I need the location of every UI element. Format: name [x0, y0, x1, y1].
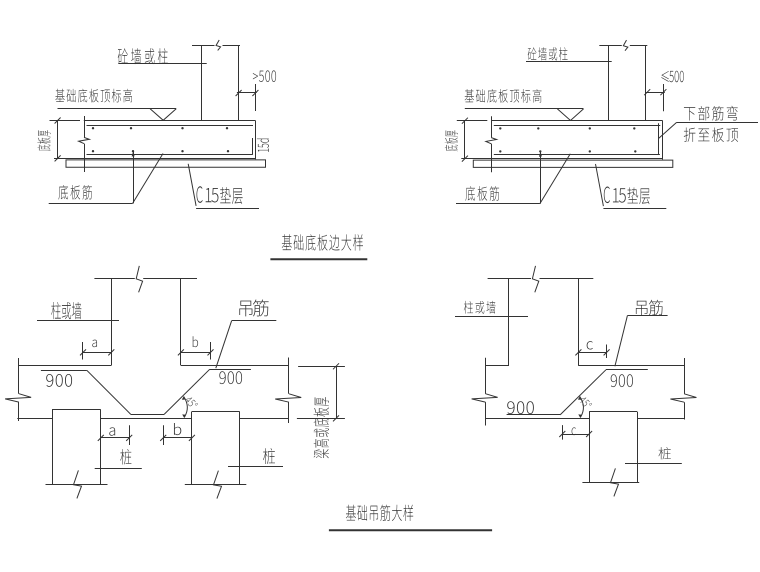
45 degree arc annotation (BR) — [580, 397, 584, 417]
dim c bottom: dimension line (BR) — [562, 434, 589, 436]
dim a top: dimension line (BL) — [83, 352, 111, 354]
left pile outline (BL) — [52, 410, 54, 485]
slab thickness text (rotated) (TR) — [445, 130, 458, 151]
column top edge line with break (BL) — [94, 278, 134, 280]
column right edge (BL) — [180, 279, 182, 366]
break symbol column top (BL) — [136, 266, 142, 292]
label concrete wall or column (TR) — [528, 47, 568, 60]
beam top line left of column (BL) — [19, 365, 111, 367]
hanging rebar right 45-degree diagonal (BL) — [164, 369, 210, 414]
label bottom rebar bent to slab top - line2 (TR) — [684, 127, 738, 142]
bottom rebar distribution dots (TL) — [92, 150, 94, 152]
beam top line right of column (BL) — [181, 365, 289, 367]
bottom rebar 15d hook (TL) — [252, 138, 254, 155]
45 degree text (BR) — [578, 395, 592, 409]
dim >500 extension line (TL) — [255, 84, 257, 111]
45 degree text (BL) — [184, 395, 198, 409]
beam left break edge (BL) — [18, 358, 20, 394]
slab left edge with break (TR) — [491, 116, 493, 137]
title: foundation slab edge detail — [282, 234, 363, 250]
rebar leader diagonal (TR) — [540, 154, 570, 204]
dim a bottom extension (BL) — [129, 425, 131, 445]
leader for bent rebar label (TR) — [677, 122, 758, 124]
wall top edge line with break (TL) — [192, 45, 215, 47]
hanging rebar 900 top segment left (BL) — [41, 370, 87, 372]
top rebar distribution dots (TR) — [499, 127, 501, 129]
slab thickness dimension line (TL) — [57, 121, 59, 159]
beam height or slab thickness text rotated (BL) — [314, 397, 330, 458]
label column or wall (BR) — [464, 301, 496, 314]
bottom rebar line (TL) — [87, 154, 253, 156]
bottom slab rebar label (TL) — [58, 185, 91, 200]
elevation symbol triangle (TR) — [557, 109, 583, 121]
text 900 lower (BR) — [507, 401, 534, 414]
rebar leader diagonal (TL) — [133, 154, 163, 204]
15d hook length text rotated (TL) — [257, 139, 269, 152]
hanging rebar 900 top segment right (BL) — [210, 369, 251, 371]
column top edge line with break (BR) — [488, 278, 531, 280]
C15 cushion layer rectangle (TL) — [66, 160, 266, 167]
hanging rebar bottom segment (BL) — [131, 414, 164, 416]
wall/column right edge (TL) — [238, 46, 240, 121]
leader line for wall label (TR) — [526, 61, 612, 63]
right pile outline (BL) — [191, 412, 193, 485]
leader line elevation (TL) — [58, 108, 177, 110]
right pile bottom line with break (BL) — [185, 484, 247, 486]
slab left edge with break (TL) — [84, 116, 86, 137]
label hanging rebar (BR) — [636, 300, 663, 316]
dim a top text (BL) — [92, 340, 97, 348]
dim c bottom text (BR) — [572, 427, 576, 435]
text 900 left (BL) — [46, 374, 72, 387]
C15 cushion layer rectangle (TR) — [473, 160, 673, 167]
title: foundation hanging rebar detail — [346, 505, 413, 521]
dim >500 dimension line (TL) — [237, 92, 257, 94]
beam bottom line right (BR) — [637, 418, 684, 420]
dim b top: dimension line (BL) — [181, 352, 211, 354]
bottom slab rebar label (TR) — [465, 186, 499, 201]
dim b top: extension line (BL) — [210, 342, 212, 360]
column right edge (BR) — [578, 279, 580, 366]
wall top edge line with break (TR) — [599, 45, 622, 47]
pile bottom line with break (BR) — [582, 482, 639, 484]
C15 cushion label text (TR) — [604, 186, 610, 203]
slab thickness text (rotated) (TL) — [37, 130, 50, 151]
break symbol on wall top (TL) — [216, 40, 221, 51]
dim b top text (BL) — [193, 336, 198, 347]
break symbol on slab left edge (TL) — [79, 137, 90, 143]
wall/column right edge (TR) — [645, 46, 647, 121]
column left edge (BR) — [508, 279, 510, 366]
leader hanging rebar (BR) — [627, 315, 667, 317]
slab bottom line + dim extension (TR) — [461, 158, 662, 160]
dim b bottom: extension (BL) — [163, 425, 165, 445]
bottom rebar distribution dots (TR) — [499, 150, 501, 152]
wall/column left edge (TL) — [201, 46, 203, 121]
title underline thick — [270, 258, 367, 260]
C15 cushion label leader (TR) — [596, 164, 604, 206]
title 2 underline thick — [329, 529, 492, 531]
leader for column label (BL) — [37, 320, 119, 322]
dim c top text (BR) — [587, 341, 593, 349]
dim b bottom: dimension line (BL) — [163, 437, 192, 439]
dim text >500 (TL) — [253, 70, 276, 82]
bottom rebar full-height hook (TR) — [658, 123, 660, 155]
break symbol on slab left edge (TR) — [486, 138, 497, 144]
dim c top: dimension line (BR) — [578, 352, 606, 354]
label bottom rebar bent to slab top - line1 (TR) — [684, 106, 738, 121]
left break edge (BR) — [485, 358, 487, 394]
dim <=500 extension line (TR) — [663, 84, 665, 111]
slab thickness dimension line (TR) — [464, 121, 466, 159]
slab top line (TR) — [491, 120, 663, 122]
slab thickness dim top extension line (TL) — [50, 120, 81, 122]
wall/column left edge (TR) — [608, 46, 610, 121]
pile label (BR) — [658, 447, 670, 459]
column left edge (BL) — [111, 279, 113, 366]
slab top line (TL) — [84, 120, 256, 122]
label hanging rebar (BL) — [239, 300, 268, 317]
top rebar line (TL) — [87, 125, 254, 127]
beam bottom line left (BR) — [485, 418, 589, 420]
beam top line right portion (BR) — [578, 365, 684, 367]
ledge step left of column (BR) — [485, 365, 509, 367]
slab right edge (TR) — [662, 121, 664, 160]
C15 cushion label text (TL) — [197, 186, 203, 203]
bottom rebar line (TR) — [494, 154, 660, 156]
text 900 upper (BR) — [611, 374, 633, 387]
label slab top elevation (TL) — [55, 89, 132, 103]
beam height dim extensions (BL) — [298, 366, 345, 368]
elevation symbol triangle (TL) — [150, 109, 176, 121]
right break edge (BR) — [684, 358, 686, 394]
label slab top elevation (TR) — [465, 89, 542, 103]
45 degree arc annotation (BL) — [184, 397, 188, 417]
break symbol on wall top (TR) — [623, 40, 628, 51]
hanging rebar 45-degree diagonal (BR) — [560, 370, 606, 415]
beam right break edge (BL) — [288, 358, 290, 394]
label concrete wall or column (TL) — [118, 48, 168, 64]
dim c top extension (BR) — [606, 345, 608, 359]
dim a bottom text (BL) — [109, 427, 115, 435]
slab bottom line + dim extension (TL) — [54, 158, 255, 160]
label column or wall (BL) — [51, 302, 81, 319]
C15 cushion label leader (TL) — [188, 164, 196, 206]
rebar label underline (TR) — [456, 203, 540, 205]
pile label right (BL) — [263, 448, 275, 464]
rebar leader vertical with arrow (TL) — [133, 152, 135, 204]
slab thickness dim top extension line (TR) — [457, 120, 488, 122]
slab right edge (TL) — [255, 121, 257, 160]
rebar label underline (TL) — [49, 203, 133, 205]
leader column label (BR) — [455, 316, 528, 318]
pile outline (BR) — [589, 412, 591, 483]
leader line for wall label (TL) — [118, 63, 206, 65]
beam height dimension line (BL) — [336, 366, 338, 418]
dim b bottom text (BL) — [174, 423, 181, 435]
dim <=500 dimension line (TR) — [646, 92, 665, 94]
text 900 right (BL) — [219, 371, 242, 384]
top rebar distribution dots (TL) — [92, 127, 94, 129]
rebar leader vertical with arrow (TR) — [540, 152, 542, 204]
dim text <=500 (TR) — [661, 71, 668, 82]
leader hanging rebar (BL) — [232, 320, 277, 322]
pile label left (BL) — [120, 449, 131, 465]
hanging rebar bottom segment (BR) — [507, 414, 560, 416]
break symbol column top (BR) — [532, 266, 538, 292]
leader line elevation (TR) — [465, 108, 584, 110]
hanging rebar left 45-degree diagonal (BL) — [87, 370, 131, 414]
hanging rebar 900 top segment (BR) — [606, 369, 648, 371]
top rebar line (TR) — [494, 125, 661, 127]
left pile bottom line with break (BL) — [46, 484, 108, 486]
dim a top: extension line (BL) — [82, 342, 84, 360]
beam bottom line segments (BL) — [17, 418, 52, 420]
dim c bottom: extension (BR) — [562, 425, 564, 440]
dim a bottom: dimension line (BL) — [101, 437, 129, 439]
